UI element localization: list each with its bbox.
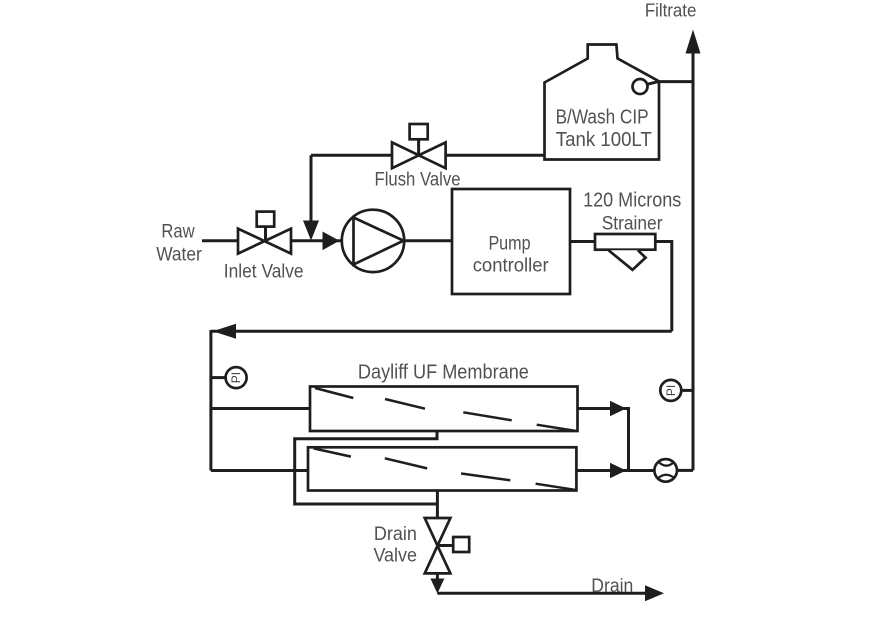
strainer 120 microns xyxy=(595,234,655,270)
wire membrane1 inlet xyxy=(211,407,310,410)
valve drain xyxy=(425,518,470,573)
label Raw Water xyxy=(156,221,202,265)
wire drain valve outlet xyxy=(436,573,439,580)
valve inlet xyxy=(238,212,291,254)
wire drain bottom line xyxy=(437,592,648,595)
wire inlet valve to pump xyxy=(291,239,342,242)
svg-text:120 Microns: 120 Microns xyxy=(583,190,681,212)
wire pump to controller xyxy=(404,239,452,242)
wire left down line xyxy=(209,330,212,471)
pump controller box xyxy=(452,189,570,294)
wire tank to riser xyxy=(659,80,693,83)
wire raw water inlet xyxy=(202,239,238,242)
wire backwash connector xyxy=(295,431,438,504)
svg-text:Pump: Pump xyxy=(488,234,530,255)
svg-text:Strainer: Strainer xyxy=(602,213,663,234)
arrowhead filtrate up xyxy=(686,30,701,54)
arrowhead drain right xyxy=(645,585,664,601)
svg-text:B/Wash CIP: B/Wash CIP xyxy=(556,107,649,129)
membrane module 2 xyxy=(308,447,576,490)
label Filtrate xyxy=(645,1,697,21)
pump xyxy=(342,210,404,272)
svg-text:Raw: Raw xyxy=(161,221,194,242)
label Dayliff UF Membrane xyxy=(358,362,529,384)
arrowhead outlet2 xyxy=(610,463,626,478)
arrowhead outlet1 xyxy=(610,401,626,416)
svg-text:Water: Water xyxy=(156,245,202,266)
svg-text:Tank 100LT: Tank 100LT xyxy=(556,129,652,151)
arrowhead down into main line xyxy=(303,221,319,241)
label 120 Microns Strainer xyxy=(583,190,681,235)
tank vent circle xyxy=(633,79,660,94)
label Flush Valve xyxy=(375,170,461,191)
tank B/Wash CIP xyxy=(545,45,660,160)
wire drain drop xyxy=(436,491,439,519)
gauge PI left xyxy=(211,367,247,388)
valve flush xyxy=(392,124,446,168)
wire filtrate riser xyxy=(692,50,695,470)
svg-text:Flush Valve: Flush Valve xyxy=(375,170,461,191)
arrowhead drain down xyxy=(430,579,444,594)
flow meter ball xyxy=(654,459,677,482)
label B/Wash CIP Tank 100LT xyxy=(556,107,652,152)
wire flush line xyxy=(311,154,545,157)
svg-text:Dayliff UF Membrane: Dayliff UF Membrane xyxy=(358,362,529,384)
gauge PI right xyxy=(660,380,693,401)
arrowhead left xyxy=(213,324,236,339)
wire strainer outlet to down riser xyxy=(655,242,672,332)
wire membrane1 outlet xyxy=(578,409,629,471)
wire recirculation top line xyxy=(211,330,672,333)
svg-text:PI: PI xyxy=(664,385,678,396)
svg-text:Drain: Drain xyxy=(374,524,417,545)
wire flush drop xyxy=(310,155,313,224)
wire membrane2 inlet xyxy=(211,469,308,472)
wire controller to strainer xyxy=(570,240,595,243)
wire membrane2 outlet xyxy=(576,469,654,472)
label Inlet Valve xyxy=(224,262,304,283)
svg-text:Drain: Drain xyxy=(591,576,633,597)
wire flowmeter to riser xyxy=(677,469,693,472)
membrane module 1 xyxy=(310,387,578,432)
svg-text:Valve: Valve xyxy=(373,546,417,567)
arrowhead into pump xyxy=(323,232,340,251)
label Drain xyxy=(591,576,633,597)
svg-text:Inlet Valve: Inlet Valve xyxy=(224,262,304,283)
svg-text:controller: controller xyxy=(473,255,550,276)
svg-text:PI: PI xyxy=(229,372,243,383)
label Pump controller xyxy=(473,234,550,277)
svg-text:Filtrate: Filtrate xyxy=(645,1,697,21)
label Drain Valve xyxy=(373,524,417,567)
